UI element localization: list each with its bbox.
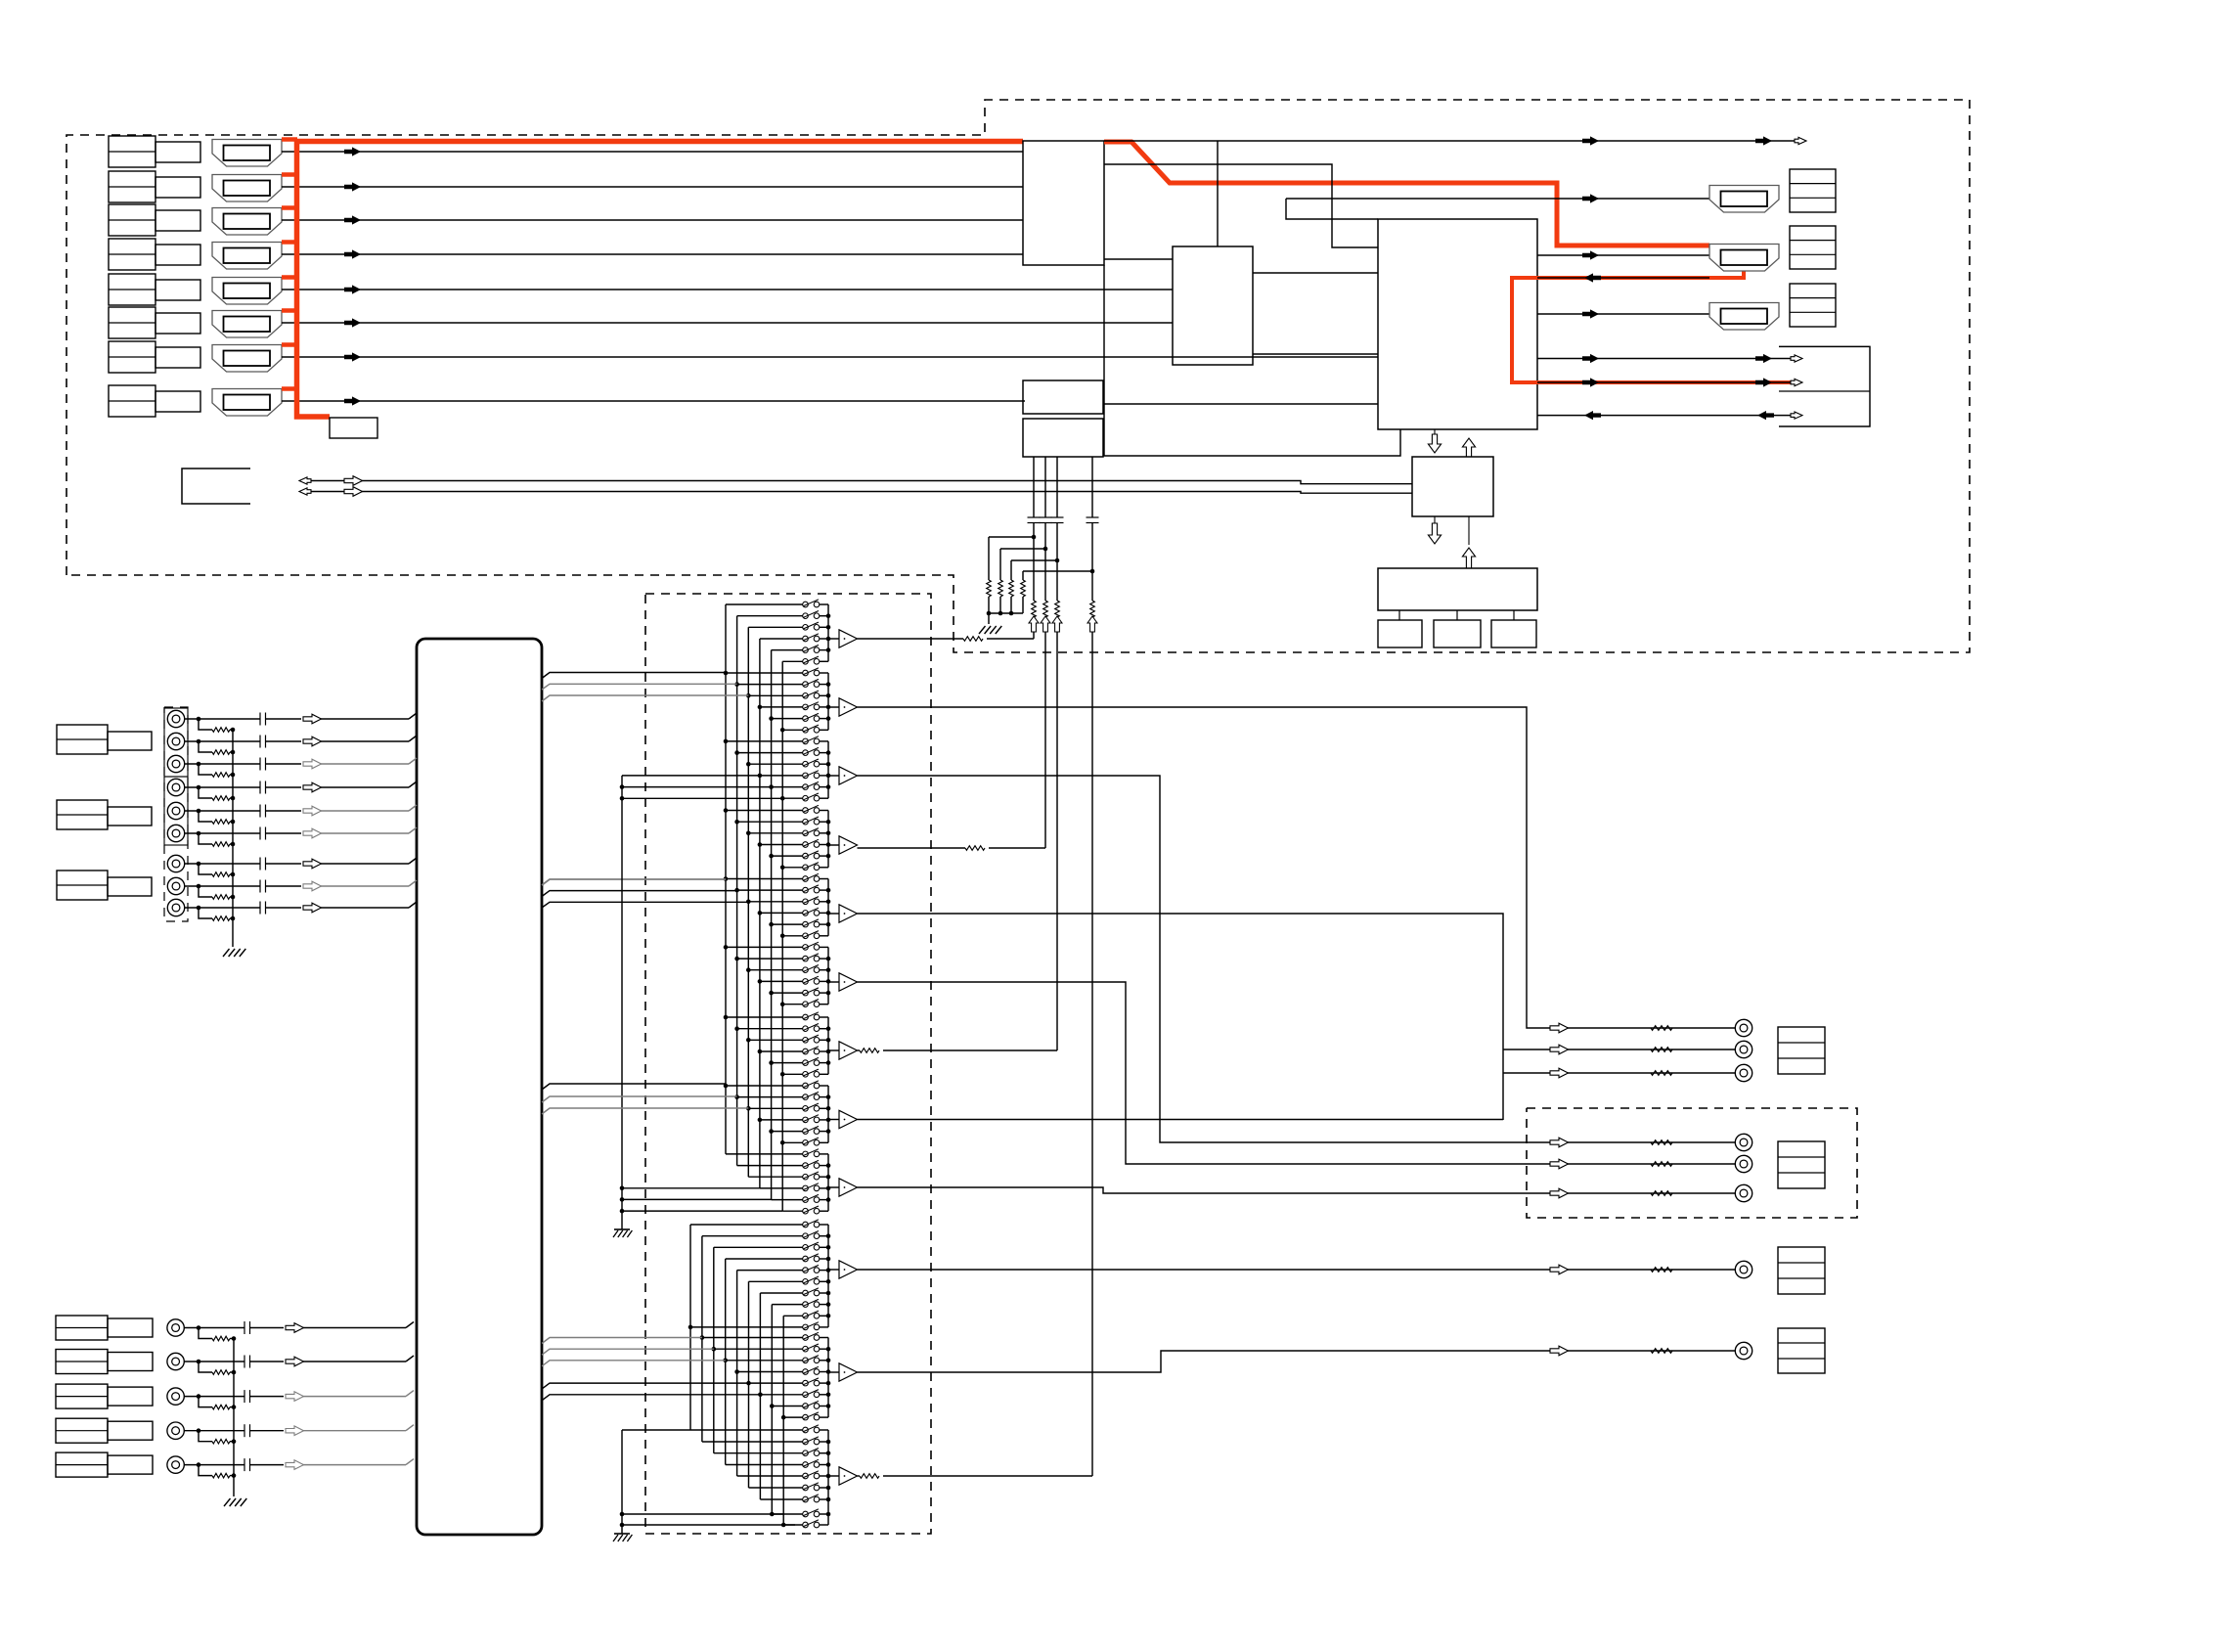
HDMI input 6 label box bbox=[109, 307, 200, 338]
wire sw out D16 bbox=[820, 1406, 828, 1407]
feed bundle A7 bbox=[542, 684, 737, 690]
resistor jack B3 bbox=[199, 1397, 236, 1409]
wire to bundle A2 bbox=[321, 736, 417, 741]
wire sw out M41 bbox=[820, 1073, 828, 1075]
switch M11 bbox=[803, 725, 820, 733]
switch M34 bbox=[803, 988, 820, 996]
wire sw out M8 bbox=[820, 694, 828, 696]
junction bus M bbox=[826, 1197, 831, 1202]
dashed boundary HDMI input/output section bbox=[67, 100, 1970, 652]
junction D17 bbox=[781, 1415, 786, 1420]
wire row M50 bbox=[748, 1176, 803, 1178]
RCA output jack 1190 bbox=[1735, 1155, 1752, 1172]
junction M31 bbox=[734, 957, 739, 961]
feed bundle C6 bbox=[542, 1084, 726, 1090]
wire sw out M44 bbox=[820, 1107, 828, 1109]
wire U3 to HDMI out3 bbox=[1537, 313, 1709, 315]
switch M18 bbox=[803, 805, 820, 813]
junction bus M bbox=[826, 1129, 831, 1134]
switch M53 bbox=[803, 1206, 820, 1214]
wire row D21 bbox=[726, 1464, 803, 1466]
wire U1 out1 top bbox=[1104, 140, 1795, 142]
wire row M5 bbox=[782, 660, 803, 662]
wire gnd bus rca2 bbox=[233, 1338, 235, 1496]
wire jack B5 bbox=[184, 1458, 284, 1471]
wire jack B2 bbox=[184, 1356, 284, 1368]
wire sw out M46 bbox=[820, 1131, 828, 1133]
junction bus M bbox=[826, 1038, 831, 1043]
junction M40 bbox=[769, 1060, 774, 1065]
wire row D23 bbox=[749, 1487, 804, 1489]
wire row M3 bbox=[760, 638, 803, 640]
wire sw out M3 bbox=[820, 638, 828, 640]
junction bus D bbox=[826, 1512, 831, 1517]
arrow open out 1220 bbox=[1550, 1188, 1569, 1198]
arrow a15 bbox=[1757, 411, 1774, 420]
wire sw out D21 bbox=[820, 1464, 828, 1466]
junction M24 bbox=[724, 876, 729, 881]
wire row M48 bbox=[726, 1153, 803, 1155]
wire buf A3 route bbox=[858, 776, 1745, 1142]
switch M0 bbox=[803, 600, 820, 607]
junction bus D bbox=[826, 1268, 831, 1272]
switch D15 bbox=[803, 1390, 820, 1398]
junction bus M bbox=[826, 1026, 831, 1031]
wire sw out D11 bbox=[820, 1348, 828, 1350]
red wire bus to U1 bbox=[294, 139, 1023, 145]
wire sw out M9 bbox=[820, 706, 828, 708]
wire row M27 bbox=[760, 912, 803, 914]
wire xbar vD1 bbox=[701, 1236, 703, 1442]
switch M39 bbox=[803, 1047, 820, 1054]
wire buf D2 route bbox=[858, 1351, 1736, 1372]
resistor out 1168 bbox=[1651, 1140, 1672, 1145]
switch D9 bbox=[803, 1322, 820, 1330]
RCA output jack 1168 bbox=[1735, 1134, 1752, 1150]
wire to bundle A1 bbox=[321, 713, 417, 719]
wire row C17 ext bbox=[622, 1210, 782, 1212]
wire jack A8 bbox=[184, 880, 301, 893]
junction bus D bbox=[826, 1474, 831, 1479]
arrow a11 bbox=[1582, 378, 1599, 386]
switch D21 bbox=[803, 1459, 820, 1467]
wire buf D3 to pullup4 bbox=[858, 1474, 1093, 1479]
arrow HDMI4 bbox=[344, 249, 361, 258]
HDMI output connector P3 bbox=[1709, 303, 1779, 331]
junction bus D bbox=[826, 1302, 831, 1307]
wire row D25 bbox=[772, 1513, 803, 1515]
RCA input jack A6 bbox=[167, 825, 184, 841]
wire sw out M28 bbox=[820, 923, 828, 925]
junction M7 bbox=[734, 682, 739, 687]
junction M37 bbox=[734, 1026, 739, 1031]
wire out bus M bbox=[827, 811, 829, 868]
wire row D3 bbox=[726, 1258, 803, 1260]
arrow a7 bbox=[1582, 309, 1599, 318]
HDMI input 7 label box bbox=[109, 341, 200, 373]
wire row M21 bbox=[760, 844, 803, 846]
ground mD bbox=[613, 1534, 632, 1541]
switch D26 bbox=[803, 1520, 820, 1528]
wire row A15 ext bbox=[622, 775, 760, 777]
wire branch x1117 bbox=[1023, 570, 1092, 572]
wire row D9 bbox=[690, 1326, 803, 1328]
wire row M14 bbox=[748, 763, 803, 765]
wire sw out D12 bbox=[820, 1360, 828, 1362]
feed bundle D2 bbox=[542, 1349, 714, 1355]
wire HDMI8 TMDS bbox=[282, 400, 1025, 402]
resistor jack A8 bbox=[199, 886, 235, 899]
arrow open A8 bbox=[303, 881, 322, 891]
junction M29 bbox=[780, 934, 785, 939]
arrow open out 1051 bbox=[1550, 1023, 1569, 1033]
junction M35 bbox=[780, 1002, 785, 1006]
resistor out 1051 bbox=[1651, 1026, 1672, 1031]
arrow open out 1190 bbox=[1550, 1159, 1569, 1169]
RCA input jack B2 bbox=[167, 1353, 184, 1369]
switch D8 bbox=[803, 1311, 820, 1318]
wire out bus M bbox=[827, 741, 829, 798]
wire sw out M15 bbox=[820, 775, 828, 777]
dashed boundary input selector matrix bbox=[645, 594, 931, 1534]
junction M12 bbox=[724, 739, 729, 744]
junction D13 bbox=[734, 1369, 739, 1374]
arrow a9 bbox=[1755, 354, 1772, 363]
wire out bus M bbox=[827, 673, 829, 730]
arrow open outD bbox=[1550, 1346, 1569, 1356]
RCA output jack 1073 bbox=[1735, 1041, 1752, 1057]
wire out bus D bbox=[827, 1430, 829, 1525]
junction D9 bbox=[688, 1325, 693, 1330]
wire buf C1 to pullup3 bbox=[858, 1049, 1058, 1053]
RCA input jack A1 bbox=[167, 710, 184, 727]
junction D10 bbox=[700, 1335, 705, 1340]
wire row M43 bbox=[737, 1096, 803, 1098]
junction M8 bbox=[746, 693, 751, 698]
dashed box RCA group1 bbox=[164, 707, 188, 921]
feed bundle B7 bbox=[542, 891, 737, 897]
wire sw out M29 bbox=[820, 935, 828, 937]
RCA input jack A5 bbox=[167, 802, 184, 819]
arrow up x1057 bbox=[1029, 616, 1039, 632]
junction M28 bbox=[769, 922, 774, 927]
junction M25 bbox=[734, 888, 739, 893]
resistor jack B1 bbox=[199, 1328, 236, 1341]
red +5V bus bbox=[297, 140, 331, 418]
junction M17 bbox=[780, 796, 785, 801]
junction M44 bbox=[746, 1106, 751, 1111]
resistor jack A9 bbox=[199, 908, 235, 920]
switch M35 bbox=[803, 1000, 820, 1007]
bracket RCA group1 b bbox=[164, 777, 188, 845]
wire xbar vM2 bbox=[747, 627, 749, 1177]
wire HDMI1 TMDS bbox=[282, 151, 1023, 153]
wire sw out M42 bbox=[820, 1085, 828, 1087]
wire row D7 bbox=[772, 1304, 803, 1306]
arrow a8 bbox=[1582, 354, 1599, 363]
switch D11 bbox=[803, 1344, 820, 1352]
switch M17 bbox=[803, 793, 820, 801]
wire row A16 ext bbox=[622, 786, 772, 788]
wire sw out D4 bbox=[820, 1270, 828, 1272]
junction bus M bbox=[826, 831, 831, 836]
wire row M8 bbox=[748, 694, 803, 696]
switch D3 bbox=[803, 1254, 820, 1262]
resistor jack A7 bbox=[199, 864, 235, 876]
wire buf B3 route bbox=[858, 982, 1745, 1164]
junction bus M bbox=[826, 900, 831, 905]
wire row D24 bbox=[760, 1498, 803, 1500]
junction bus D bbox=[826, 1462, 831, 1467]
terminal box outD bbox=[1778, 1328, 1825, 1373]
hollow arrow up1 bbox=[1462, 438, 1475, 457]
wire to bundle B1 bbox=[303, 1322, 414, 1328]
wire jack A4 bbox=[184, 781, 301, 794]
wire row M37 bbox=[737, 1028, 803, 1030]
wire row M29 bbox=[782, 935, 803, 937]
wire row M34 bbox=[772, 992, 803, 994]
junction M22 bbox=[769, 854, 774, 859]
wire xbar vM4 bbox=[771, 650, 773, 1200]
wire sw out M20 bbox=[820, 832, 828, 834]
wire sw out M36 bbox=[820, 1016, 828, 1018]
wire sw out D22 bbox=[820, 1475, 828, 1477]
wire buffer in M bbox=[828, 1049, 839, 1051]
junction bus D bbox=[826, 1347, 831, 1352]
switch D2 bbox=[803, 1242, 820, 1250]
wire xbar vM1 bbox=[736, 616, 738, 1166]
wire sw out M27 bbox=[820, 912, 828, 914]
red 5V stub J2 bbox=[282, 172, 297, 177]
arrow open A3 bbox=[303, 759, 322, 769]
wire sw out M11 bbox=[820, 729, 828, 731]
wire row D18 bbox=[690, 1429, 803, 1431]
wire sw out M0 bbox=[820, 603, 828, 605]
RCA input jack B3 bbox=[167, 1388, 184, 1405]
wire gnd bus m636 bbox=[620, 776, 625, 1229]
wire U3 to HDMI out2 bbox=[1537, 254, 1709, 256]
HDMI input 2 label box bbox=[109, 171, 200, 202]
wire sw out M37 bbox=[820, 1028, 828, 1030]
RCA input jack B1 bbox=[167, 1319, 184, 1336]
HDMI input connector J6 bbox=[212, 311, 282, 338]
wire sw out D25 bbox=[820, 1513, 828, 1515]
junction bus M bbox=[826, 1118, 831, 1123]
switch D7 bbox=[803, 1299, 820, 1307]
switch D1 bbox=[803, 1231, 820, 1239]
switch M47 bbox=[803, 1138, 820, 1145]
resistor jack A3 bbox=[199, 764, 235, 777]
arrow open B3 bbox=[286, 1392, 304, 1402]
red 5V stub J3 bbox=[282, 205, 297, 210]
arrow a6 bbox=[1584, 273, 1601, 282]
switch D4 bbox=[803, 1265, 820, 1272]
RCA output jack D bbox=[1735, 1342, 1752, 1359]
switch M41 bbox=[803, 1069, 820, 1077]
switch M23 bbox=[803, 863, 820, 871]
wire pullup line x1057 bbox=[1028, 457, 1041, 639]
switch D6 bbox=[803, 1288, 820, 1296]
wire xbar vM5 bbox=[781, 661, 783, 1211]
wire row M9 bbox=[760, 706, 803, 708]
wire out bus M bbox=[827, 1086, 829, 1142]
arrow open out 1097 bbox=[1550, 1068, 1569, 1078]
wire row M7 bbox=[737, 684, 803, 686]
wire out A3 bbox=[1503, 1072, 1744, 1074]
wire sw out D20 bbox=[820, 1452, 828, 1454]
memory box M3 bbox=[1491, 610, 1536, 647]
wire sw out M16 bbox=[820, 786, 828, 788]
wire row M31 bbox=[737, 958, 803, 960]
arrowhead a13 bbox=[1791, 379, 1802, 385]
wire out bus M bbox=[827, 1154, 829, 1211]
wire buffer in M bbox=[828, 913, 839, 915]
switch M44 bbox=[803, 1103, 820, 1111]
junction M34 bbox=[769, 991, 774, 996]
wire jack A9 bbox=[184, 902, 301, 915]
wire xbar vD3 bbox=[725, 1259, 727, 1465]
wire row M38 bbox=[748, 1039, 803, 1041]
wire row D17 bbox=[783, 1416, 803, 1418]
wire U2-U3 b bbox=[1253, 353, 1378, 355]
wire sw out M31 bbox=[820, 958, 828, 960]
label box pair b3 bbox=[56, 1418, 153, 1443]
arrow a4 bbox=[1582, 194, 1599, 202]
resistor jack B4 bbox=[199, 1431, 236, 1444]
arrow a14 bbox=[1584, 411, 1601, 420]
RCA input jack A4 bbox=[167, 779, 184, 795]
switch M6 bbox=[803, 668, 820, 676]
arrow HDMI3 bbox=[344, 215, 361, 224]
junction M13 bbox=[734, 750, 739, 755]
wire row M13 bbox=[737, 752, 803, 754]
junction bus M bbox=[826, 716, 831, 721]
red wire ARC bbox=[1512, 268, 1791, 382]
ground rca2 bbox=[224, 1498, 246, 1506]
wire sw out M22 bbox=[820, 855, 828, 857]
wire row D5 bbox=[749, 1280, 804, 1282]
arrow open right 2 bbox=[344, 487, 363, 497]
HDMI output connector P1 bbox=[1709, 186, 1779, 213]
feed bundle A6 bbox=[542, 673, 726, 679]
junction bus M bbox=[826, 637, 831, 642]
switch M21 bbox=[803, 839, 820, 847]
ground pullup bbox=[979, 626, 1001, 634]
junction M30 bbox=[724, 945, 729, 950]
junction bus M bbox=[826, 774, 831, 779]
switch M52 bbox=[803, 1194, 820, 1202]
junction dot x1081 bbox=[1055, 558, 1060, 563]
junction bus M bbox=[826, 1060, 831, 1065]
wire xbar vD6 bbox=[759, 1293, 761, 1499]
wire row M2 bbox=[748, 626, 803, 628]
junction bus D bbox=[826, 1381, 831, 1386]
wire row M41 bbox=[782, 1073, 803, 1075]
junction bus D bbox=[826, 1440, 831, 1445]
hollow arrow up2 bbox=[1462, 516, 1475, 568]
IC U5 buffer B bbox=[1023, 419, 1103, 457]
junction bus M bbox=[826, 647, 831, 652]
arrow open A6 bbox=[303, 828, 322, 838]
resistor branch x1069 bbox=[998, 549, 1003, 613]
junction D11 bbox=[712, 1347, 717, 1352]
HDMI output connector P2 bbox=[1709, 245, 1779, 272]
feed bundle C8 bbox=[542, 1108, 748, 1114]
wire sw out D8 bbox=[820, 1315, 828, 1317]
wire out bus M bbox=[827, 879, 829, 936]
IC U4 buffer A bbox=[1023, 380, 1103, 414]
wire row M53 bbox=[782, 1210, 803, 1212]
wire row M10 bbox=[772, 718, 803, 720]
junction bus M bbox=[826, 762, 831, 767]
label box pair b2 bbox=[56, 1384, 153, 1408]
switch M4 bbox=[803, 645, 820, 652]
wire buffer in M bbox=[828, 981, 839, 983]
wire sw out D19 bbox=[820, 1441, 828, 1443]
wire row M12 bbox=[726, 740, 803, 742]
red 5V stub J5 bbox=[282, 275, 297, 280]
switch D23 bbox=[803, 1483, 820, 1491]
wire row M17 bbox=[782, 797, 803, 799]
wire sw out D6 bbox=[820, 1292, 828, 1294]
wire row A17 ext bbox=[622, 797, 782, 799]
switch M9 bbox=[803, 702, 820, 710]
wire row M25 bbox=[737, 889, 803, 891]
switch M46 bbox=[803, 1126, 820, 1134]
wire sw out M7 bbox=[820, 684, 828, 686]
wire sw out M32 bbox=[820, 969, 828, 971]
wire sw out M17 bbox=[820, 797, 828, 799]
junction bus M bbox=[826, 957, 831, 961]
junction D12 bbox=[723, 1359, 728, 1363]
wire HDMI2 TMDS bbox=[282, 186, 1023, 188]
label box 5V bbox=[330, 418, 377, 438]
wire row D26 bbox=[783, 1524, 803, 1526]
wire sw out M6 bbox=[820, 672, 828, 674]
wire row M40 bbox=[772, 1062, 803, 1064]
arrow HDMI6 bbox=[344, 318, 361, 327]
switch M5 bbox=[803, 656, 820, 664]
wire row M49 bbox=[737, 1165, 803, 1167]
junction bus D bbox=[826, 1359, 831, 1363]
arrow HDMI1 bbox=[344, 147, 361, 156]
wire pullup line x1081 bbox=[1051, 457, 1064, 1050]
wire HDMI4 TMDS bbox=[282, 253, 1023, 255]
switch D5 bbox=[803, 1276, 820, 1284]
wire row M35 bbox=[782, 1004, 803, 1005]
wire row M18 bbox=[726, 810, 803, 812]
switch M26 bbox=[803, 897, 820, 905]
wire buffer in M bbox=[828, 1119, 839, 1121]
junction M32 bbox=[746, 967, 751, 972]
switch M27 bbox=[803, 908, 820, 915]
wire branch x1057 bbox=[989, 536, 1034, 538]
wire sw out M47 bbox=[820, 1141, 828, 1143]
wire sw out M50 bbox=[820, 1176, 828, 1178]
wire to bundle A3 bbox=[321, 758, 417, 764]
wire row M22 bbox=[772, 855, 803, 857]
wire xbar vD5 bbox=[748, 1281, 750, 1488]
wire sw out D26 bbox=[820, 1524, 828, 1526]
feed D gnd3 bbox=[622, 1523, 795, 1528]
IC U2 switch bbox=[1173, 246, 1253, 365]
HDMI input 1 label box bbox=[109, 136, 200, 167]
junction M16 bbox=[769, 784, 774, 789]
wire sw out M48 bbox=[820, 1153, 828, 1155]
wire sw out M23 bbox=[820, 867, 828, 869]
wire sw out M24 bbox=[820, 878, 828, 880]
RCA input jack B4 bbox=[167, 1422, 184, 1439]
